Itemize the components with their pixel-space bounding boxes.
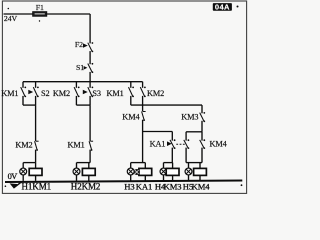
svg-text:KM1: KM1	[107, 89, 124, 98]
svg-text:KM4: KM4	[210, 139, 228, 148]
svg-text:H1KM1: H1KM1	[22, 181, 52, 191]
svg-text:KM1: KM1	[68, 140, 85, 149]
svg-text:KM2: KM2	[53, 89, 70, 98]
svg-text:S3: S3	[92, 89, 101, 98]
svg-text:F2: F2	[75, 40, 83, 49]
svg-text:KM3: KM3	[181, 112, 198, 121]
svg-text:S2: S2	[41, 89, 50, 98]
svg-text:S1: S1	[76, 63, 84, 72]
svg-text:F1: F1	[36, 3, 44, 12]
svg-text:KM4: KM4	[122, 112, 140, 121]
svg-text:0V: 0V	[8, 172, 18, 181]
svg-text:KM3: KM3	[164, 181, 182, 191]
svg-text:KA1: KA1	[136, 181, 152, 191]
svg-text:KA1: KA1	[150, 139, 166, 148]
svg-text:KM1: KM1	[1, 89, 18, 98]
svg-text:24V: 24V	[4, 14, 18, 23]
svg-text:H2KM2: H2KM2	[71, 181, 101, 191]
svg-text:H3: H3	[124, 181, 134, 191]
svg-text:04A: 04A	[215, 3, 230, 12]
svg-text:KM2: KM2	[15, 140, 32, 149]
svg-text:KM4: KM4	[192, 181, 211, 191]
svg-text:KM2: KM2	[147, 89, 164, 98]
